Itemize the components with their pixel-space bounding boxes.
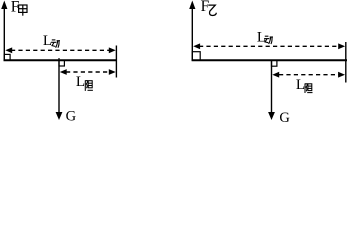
hanger square below bar (right): [272, 60, 277, 66]
weight arrow G head (left): [56, 112, 63, 120]
measure line L-zu (dashed double arrow): [66, 71, 110, 73]
right boundary line (right lever): [345, 42, 347, 83]
label L-zu (zu glyph): [85, 80, 93, 91]
svg-text:L: L: [257, 29, 266, 45]
pivot square on bar left end (right lever): [192, 52, 200, 61]
pivot square on bar left end: [4, 54, 10, 60]
measure line L-dong (dashed double arrow): [11, 49, 110, 51]
label L-dong (dong glyph): [51, 40, 60, 48]
force arrow F yi head: [189, 1, 195, 10]
right boundary line (left lever): [115, 46, 117, 78]
force arrow F jia stem: [3, 7, 5, 61]
lever bar (left): [4, 59, 118, 61]
weight arrow G stem (left): [58, 61, 60, 114]
label L-zu right (zu glyph): [305, 83, 313, 93]
svg-text:L: L: [43, 33, 52, 49]
svg-text:L: L: [76, 74, 85, 90]
hanger square below bar: [59, 60, 64, 66]
svg-text:F: F: [201, 0, 210, 15]
svg-text:L: L: [296, 77, 305, 93]
measure line L-zu right (dashed double arrow): [279, 74, 339, 76]
hanger tick above bar: [58, 58, 60, 61]
svg-text:G: G: [66, 109, 77, 124]
weight arrow G head (right): [268, 112, 275, 120]
force arrow F yi stem: [191, 7, 193, 61]
measure line L-dong right (dashed double arrow): [199, 45, 340, 47]
lever bar (right): [192, 59, 347, 61]
label L-dong right (dong glyph): [264, 36, 273, 44]
label F jia (jia glyph): [19, 5, 27, 16]
label F yi (yi glyph): [208, 5, 216, 15]
force arrow F jia head: [1, 1, 7, 10]
weight arrow G stem (right): [271, 61, 273, 114]
svg-text:G: G: [279, 110, 290, 124]
